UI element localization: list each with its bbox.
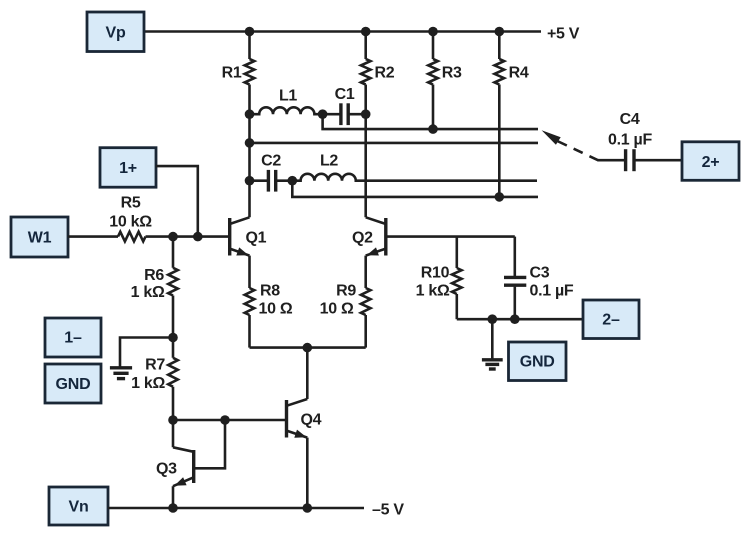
- box 2+: [682, 142, 739, 181]
- svg-text:L1: L1: [279, 88, 297, 105]
- svg-text:–5 V: –5 V: [372, 502, 404, 519]
- node dot C2/L2 junction: [288, 176, 298, 186]
- svg-text:C2: C2: [261, 153, 281, 170]
- svg-text:1+: 1+: [119, 160, 137, 177]
- svg-text:1 kΩ: 1 kΩ: [416, 283, 450, 300]
- wire Q4 base row: [173, 419, 286, 422]
- wire Q4 collector to emitter bus: [306, 348, 309, 399]
- transistor Q3: [156, 447, 194, 486]
- node dot C2 left: [245, 176, 255, 186]
- node dot R6 top: [168, 232, 178, 242]
- node dot Q3 emitter on rail: [168, 503, 178, 513]
- svg-text:R6: R6: [144, 267, 164, 284]
- box GND right: [509, 342, 567, 381]
- svg-text:GND: GND: [56, 376, 91, 393]
- svg-text:GND: GND: [520, 354, 555, 371]
- wire Q2 base to R10/C3: [386, 235, 515, 238]
- ground symbol left: [110, 368, 132, 379]
- capacitor C1: [323, 86, 366, 125]
- svg-text:2–: 2–: [602, 312, 620, 329]
- node dot top rail R1: [245, 27, 255, 37]
- svg-text:R1: R1: [222, 65, 242, 82]
- resistor R2: [361, 32, 395, 218]
- box Vp: [87, 12, 144, 52]
- resistor R8: [245, 283, 293, 348]
- ground symbol right: [482, 360, 503, 369]
- svg-text:10 Ω: 10 Ω: [259, 301, 293, 318]
- resistor R1: [222, 32, 255, 218]
- wire Q3 collector up to base row: [172, 420, 175, 447]
- node dot R4 bottom on rail 4: [495, 192, 505, 202]
- box GND left: [45, 364, 101, 403]
- svg-text:W1: W1: [28, 230, 52, 247]
- node dot top rail R3: [428, 27, 438, 37]
- dashed pointer to rails: [555, 140, 599, 161]
- svg-text:C3: C3: [530, 265, 550, 282]
- resistor R6: [131, 237, 178, 338]
- svg-text:Q2: Q2: [352, 230, 373, 247]
- wire junction to left ground: [120, 338, 173, 368]
- transistor Q1: [230, 217, 267, 255]
- wire Q1 emitter to R8: [248, 256, 251, 288]
- capacitor C4: [598, 111, 682, 171]
- node dot C3 bottom: [510, 314, 520, 324]
- wire R8/R9 emitter bus: [250, 346, 366, 349]
- node dot C1 right / R2 branch: [361, 109, 371, 119]
- arrowhead of dashed pointer: [542, 130, 561, 145]
- box W1: [11, 217, 68, 257]
- node dot ground branch: [488, 314, 498, 324]
- wire W1 to R5: [68, 235, 118, 238]
- svg-text:C4: C4: [620, 111, 640, 128]
- node dot R6/R7 junction: [168, 333, 178, 343]
- svg-text:R2: R2: [375, 65, 395, 82]
- node dot Q4 emitter on rail: [303, 503, 313, 513]
- svg-text:0.1 µF: 0.1 µF: [530, 282, 574, 299]
- node dot Q3 base branch: [220, 415, 230, 425]
- svg-text:R9: R9: [336, 283, 356, 300]
- wire rail 1 from L1/C1 junction: [323, 114, 538, 129]
- resistor R7: [131, 338, 178, 421]
- svg-text:1 kΩ: 1 kΩ: [131, 284, 165, 301]
- capacitor C3: [504, 237, 574, 320]
- svg-text:R10: R10: [421, 265, 450, 282]
- wire R10/C3 bottom node to 2-: [457, 318, 583, 321]
- node dot top rail R4: [495, 27, 505, 37]
- svg-text:+5 V: +5 V: [547, 26, 580, 43]
- svg-text:10 kΩ: 10 kΩ: [109, 214, 152, 231]
- wire Q2 emitter to R9: [364, 256, 367, 288]
- wire rail 4 from C2/L2 junction: [292, 181, 538, 197]
- wire -5V bottom rail: [108, 507, 364, 510]
- wire +5V top rail: [144, 30, 541, 33]
- resistor R4: [495, 32, 529, 197]
- wire rail 2 from R1 branch: [250, 142, 539, 145]
- node dot L1/C1 junction: [318, 109, 328, 119]
- resistor R10: [416, 237, 462, 320]
- resistor R5: [109, 195, 152, 242]
- wire R5 to Q1 base: [146, 235, 230, 238]
- svg-text:1–: 1–: [64, 330, 82, 347]
- svg-text:R8: R8: [260, 283, 280, 300]
- inductor L1: [250, 88, 323, 115]
- capacitor C2: [250, 153, 293, 192]
- resistor R9: [320, 283, 371, 348]
- svg-text:R7: R7: [145, 357, 165, 374]
- node dot 1+ branch: [193, 232, 203, 242]
- transistor Q4: [287, 399, 322, 438]
- node dot R7 bottom: [168, 415, 178, 425]
- wire 1+ to base node: [156, 166, 198, 237]
- inductor L2 and rail 3: [292, 153, 537, 181]
- svg-text:Vp: Vp: [105, 25, 125, 42]
- wire to right ground: [491, 319, 494, 360]
- resistor R3: [428, 32, 462, 130]
- node dot rail 2: [245, 138, 255, 148]
- svg-text:Vn: Vn: [68, 499, 88, 516]
- svg-text:C1: C1: [335, 86, 355, 103]
- svg-text:2+: 2+: [702, 154, 720, 171]
- box 1+: [100, 148, 156, 188]
- box Vn: [49, 487, 108, 525]
- svg-text:Q1: Q1: [246, 230, 267, 247]
- svg-text:1 kΩ: 1 kΩ: [131, 375, 165, 392]
- svg-text:L2: L2: [320, 153, 338, 170]
- node dot top rail R2: [361, 27, 371, 37]
- wire Q3 base branch: [194, 420, 225, 468]
- svg-text:0.1 µF: 0.1 µF: [608, 131, 652, 148]
- transistor Q2: [352, 217, 386, 255]
- svg-text:R4: R4: [509, 65, 529, 82]
- node dot R3 bottom on rail 1: [428, 124, 438, 134]
- svg-text:Q4: Q4: [301, 412, 322, 429]
- box 1-: [45, 318, 101, 357]
- svg-text:R5: R5: [121, 195, 141, 212]
- svg-text:R3: R3: [442, 65, 462, 82]
- node dot L1 left: [245, 109, 255, 119]
- wire Q4 emitter to -5V rail: [306, 438, 309, 508]
- svg-text:Q3: Q3: [156, 461, 177, 478]
- wire Q3 emitter to -5V rail: [172, 486, 175, 508]
- node dot emitter bus: [303, 343, 313, 353]
- svg-text:10 Ω: 10 Ω: [320, 301, 354, 318]
- box 2-: [583, 300, 639, 339]
